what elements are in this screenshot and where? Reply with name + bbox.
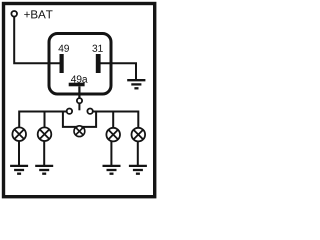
wire right rail [93,112,138,129]
wire right contact to pilot lamp [81,112,96,127]
wire lamp L2 to ground G3 [43,141,45,166]
ground G4 [103,166,121,174]
pin label 31 [92,45,102,52]
flasher relay U1 [49,34,111,95]
pin label 49a [71,75,88,82]
ground G1 [127,80,145,88]
pin label 49 [58,45,69,52]
wire drop to lamp L2 [44,112,46,129]
wire pin 31 to ground G1 [100,63,136,80]
pin 49a [69,83,85,87]
wire left rail [19,112,66,129]
lamp L1 [12,127,26,141]
ground G5 [129,166,147,174]
wire lamp L4 to ground G4 [110,141,112,165]
terminal +BAT [11,11,17,17]
wire left contact to pilot lamp [63,112,78,127]
pin 31 [96,54,101,73]
ground G3 [35,166,53,174]
lamp L4 [106,128,120,142]
wire pin 49a to switch [78,86,80,98]
lamp L5 [132,128,146,142]
ground G2 [10,166,28,174]
switch S1 pole [77,98,82,103]
wire drop to lamp L4 [112,112,114,129]
switch S1 lever [78,103,80,110]
lamp L2 [38,127,52,141]
wire +BAT to pin 49 [14,17,59,64]
wire lamp L5 to ground G5 [137,141,139,165]
switch S1 left contact [67,109,72,114]
pilot lamp L3 [74,126,85,137]
wire lamp L1 to ground G2 [18,141,20,166]
pin 49 [60,54,64,73]
label +BAT [24,10,52,18]
switch S1 right contact [87,109,92,114]
